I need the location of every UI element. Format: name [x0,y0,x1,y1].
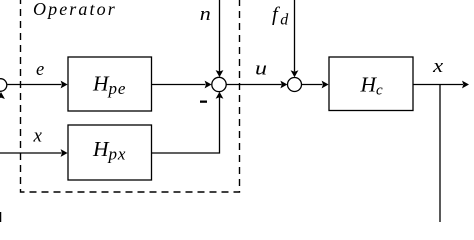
wire feedback from Hpx: right then up into mid sum [152,97,220,153]
dashed operator box [21,0,240,192]
wire stub bottom-left [0,212,2,223]
wire branch down from x [439,85,441,224]
summing junction fd [288,78,302,92]
summing junction left [0,79,7,92]
wire u: mid sum to fd sum [226,84,281,86]
summing junction mid [212,77,226,91]
svg-text:e: e [36,60,44,80]
svg-text:Operator: Operator [33,0,117,19]
wire Hpe out to mid sum [152,84,206,86]
svg-text:x: x [432,56,444,77]
block Hc [329,57,413,111]
svg-text:u: u [255,59,267,80]
svg-text:x: x [33,126,43,147]
wire fd from top [294,0,296,72]
block Hpe [68,57,152,111]
minus sign at mid sum [200,101,207,103]
wire x out of Hc [413,84,463,86]
wire x input to Hpx [0,152,62,154]
wire fd sum to Hc [302,84,323,86]
svg-text:n: n [200,4,211,25]
wire e: left sum to Hpe [7,84,61,86]
wire n from top [219,0,221,72]
arrow feedback into left sum from below [0,92,5,99]
block Hpx [68,125,152,180]
